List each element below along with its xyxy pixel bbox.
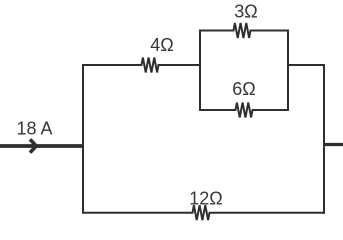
svg-text:18 A: 18 A <box>16 119 52 139</box>
svg-text:3Ω: 3Ω <box>234 2 257 22</box>
svg-text:12Ω: 12Ω <box>189 189 222 209</box>
svg-text:4Ω: 4Ω <box>150 35 173 55</box>
svg-text:6Ω: 6Ω <box>232 79 255 99</box>
